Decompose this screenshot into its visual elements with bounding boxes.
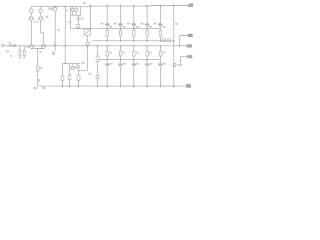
- wire bias collector: [78, 46, 87, 71]
- resistor R15: [96, 75, 99, 79]
- transistor Q8: [106, 23, 109, 26]
- resistor R25: [146, 31, 148, 36]
- resistor R3 shunt: [23, 46, 25, 58]
- top rail left segment: [31, 6, 91, 8]
- transistor Q6 VAS: [71, 66, 75, 70]
- wire OUT3: [177, 57, 188, 65]
- fuse F1: [162, 39, 165, 42]
- lower wire: [105, 46, 109, 86]
- transistor Q3 diff: [29, 44, 33, 48]
- resistor R12: [77, 25, 80, 28]
- lower wire: [158, 46, 162, 86]
- signal line: [4, 45, 187, 47]
- wire diff emitters: [31, 49, 43, 67]
- lower wire: [132, 46, 136, 86]
- transistor Q9: [106, 63, 109, 66]
- lower wire: [118, 46, 122, 86]
- wire: [86, 35, 88, 41]
- wire x70.3 lower: [69, 15, 71, 28]
- transistor Q1 mirror: [29, 16, 33, 20]
- wire VAS base stubs: [73, 63, 78, 66]
- wire column A: [30, 7, 32, 45]
- resistor R23: [133, 51, 135, 56]
- fuse F2: [168, 39, 171, 42]
- column x97.5: [97, 46, 99, 86]
- resistor R17: [106, 51, 108, 56]
- wire branch x69.5: [69, 63, 71, 86]
- lower drive line: [98, 59, 161, 61]
- junction dots: [54, 5, 181, 87]
- transistor Q11: [119, 63, 122, 66]
- label smudges: [6, 2, 178, 89]
- terminal OUT3: [188, 55, 193, 58]
- riser x90.5: [90, 6, 92, 29]
- parallel resistor pair stubs: [70, 7, 80, 16]
- wire mirror bases: [34, 21, 39, 23]
- transistor Q5 bias: [86, 42, 90, 46]
- resistor R29: [159, 51, 161, 56]
- resistor R20: [119, 51, 121, 56]
- resistor R26: [146, 51, 148, 56]
- resistor R8: [61, 76, 64, 80]
- wire column x55: [54, 7, 56, 51]
- wire VAS emitter: [77, 69, 79, 86]
- resistor R19: [119, 31, 121, 36]
- wire tail: [37, 71, 39, 86]
- top rail right segment: [91, 6, 189, 7]
- resistor R9: [68, 75, 71, 80]
- transistor Q15: [146, 63, 149, 66]
- lower wire: [145, 46, 149, 86]
- resistor R28: [159, 31, 161, 36]
- terminal OUT2: [187, 45, 192, 48]
- wire: [145, 6, 149, 41]
- capacitor C2: [77, 15, 81, 25]
- wire OUT1: [180, 36, 188, 46]
- wire branch x62.5: [62, 63, 64, 86]
- wire: [132, 6, 136, 41]
- transistor Q7 VAS: [76, 65, 80, 69]
- output node line: [92, 40, 174, 42]
- transistor Q2 mirror: [39, 16, 43, 20]
- terminal +V: [189, 4, 193, 7]
- resistor R22: [133, 31, 135, 36]
- terminal OUT1: [188, 34, 192, 37]
- wire: [118, 6, 122, 41]
- resistor R7 column x55: [54, 8, 57, 11]
- resistor R1 on line: [13, 45, 16, 47]
- transistor Q13: [132, 63, 135, 66]
- resistor R16: [106, 31, 108, 36]
- wire: [158, 6, 162, 41]
- transistor Q17: [159, 63, 162, 66]
- resistor R4 top left: [30, 9, 33, 12]
- transistor Q10: [119, 23, 122, 26]
- transistor Q16: [159, 23, 162, 26]
- transistor Q12: [132, 23, 135, 26]
- resistor R11: [75, 8, 77, 11]
- upper drive line: [70, 27, 160, 29]
- resistor R5 top: [39, 9, 42, 12]
- wire column x65: [64, 7, 66, 64]
- resistor R14: [96, 56, 99, 61]
- wire column B: [41, 7, 44, 45]
- wire: [105, 6, 109, 41]
- input terminal J1: [1, 45, 3, 47]
- node line VAS base: [63, 62, 80, 64]
- transistor Q4 diff: [42, 44, 46, 48]
- bottom rail: [38, 85, 187, 87]
- trimpot VR1: [86, 27, 88, 30]
- transistor Q18: [173, 64, 176, 67]
- resistor R2 shunt: [19, 46, 21, 58]
- resistor R6 tail: [36, 66, 39, 71]
- capacitor C1: [9, 44, 11, 47]
- resistor R13: [77, 75, 80, 80]
- resistor R10: [72, 8, 74, 11]
- transistor Q14: [146, 23, 149, 26]
- terminal -V: [187, 84, 191, 87]
